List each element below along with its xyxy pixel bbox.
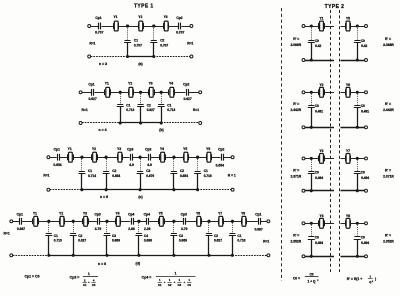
svg-text:C2: C2 xyxy=(214,234,218,238)
svg-text:C0: C0 xyxy=(361,104,365,108)
svg-text:C4: C4 xyxy=(187,283,191,287)
svg-text:C1: C1 xyxy=(134,39,138,43)
svg-text:0.494: 0.494 xyxy=(315,241,323,245)
svg-text:C3: C3 xyxy=(146,169,150,173)
svg-text:0.713: 0.713 xyxy=(126,108,134,112)
svg-text:(c): (c) xyxy=(138,195,142,199)
svg-text:Y3: Y3 xyxy=(319,149,323,153)
svg-text:0.42: 0.42 xyxy=(315,44,321,48)
svg-text:Y6: Y6 xyxy=(206,147,210,151)
svg-text:Y2: Y2 xyxy=(128,82,132,86)
svg-text:n = 8: n = 8 xyxy=(98,262,106,266)
svg-text:C0: C0 xyxy=(315,104,319,108)
svg-text:C1: C1 xyxy=(88,169,92,173)
svg-text:0.481: 0.481 xyxy=(361,110,369,114)
svg-text:Y2: Y2 xyxy=(319,83,323,87)
svg-text:Cp4: Cp4 xyxy=(144,212,150,216)
svg-text:Cp4 =: Cp4 = xyxy=(142,275,152,279)
svg-text:Y1: Y1 xyxy=(113,15,117,19)
svg-text:Cp1: Cp1 xyxy=(88,82,94,86)
svg-text:C2: C2 xyxy=(180,169,184,173)
svg-text:C2: C2 xyxy=(168,283,172,287)
svg-text:2.442R: 2.442R xyxy=(290,108,301,112)
svg-text:+: + xyxy=(88,280,90,284)
svg-text:n = 6: n = 6 xyxy=(100,195,108,199)
svg-text:(b): (b) xyxy=(159,128,163,132)
svg-text:C0: C0 xyxy=(309,272,313,276)
svg-text:Cp3: Cp3 xyxy=(127,148,133,152)
svg-text:n = 3: n = 3 xyxy=(99,62,107,66)
svg-text:0.886: 0.886 xyxy=(144,239,152,243)
svg-text:4.9: 4.9 xyxy=(147,163,152,167)
svg-text:3.79: 3.79 xyxy=(181,227,188,231)
svg-text:C1: C1 xyxy=(204,169,208,173)
svg-text:Y8: Y8 xyxy=(241,212,245,216)
svg-text:C0: C0 xyxy=(315,170,319,174)
svg-text:Y5: Y5 xyxy=(183,147,187,151)
svg-text:C4: C4 xyxy=(144,234,148,238)
svg-text:0.707: 0.707 xyxy=(176,31,184,35)
svg-text:2.371R: 2.371R xyxy=(383,174,394,178)
svg-text:Cp2: Cp2 xyxy=(218,148,224,152)
svg-text:C3: C3 xyxy=(179,234,183,238)
svg-text:0.713: 0.713 xyxy=(54,239,62,243)
svg-text:Y8: Y8 xyxy=(346,214,350,218)
svg-text:0.869: 0.869 xyxy=(112,239,120,243)
svg-text:Cp3 =: Cp3 = xyxy=(70,275,80,279)
svg-text:Cp3: Cp3 xyxy=(145,148,151,152)
svg-text:Y5: Y5 xyxy=(346,17,350,21)
svg-text:Y7: Y7 xyxy=(218,212,222,216)
svg-text:C1: C1 xyxy=(83,283,87,287)
svg-text:Y3: Y3 xyxy=(117,147,121,151)
svg-text:3.79: 3.79 xyxy=(95,227,102,231)
svg-text:Y5: Y5 xyxy=(159,212,163,216)
svg-text:1: 1 xyxy=(175,271,177,275)
svg-text:+: + xyxy=(174,280,176,284)
svg-text:Y2: Y2 xyxy=(59,212,63,216)
svg-text:2.88: 2.88 xyxy=(128,227,135,231)
svg-text:R' =: R' = xyxy=(385,168,391,172)
svg-text:C2: C2 xyxy=(160,39,164,43)
svg-text:3.088R: 3.088R xyxy=(383,43,394,47)
svg-text:Cp1 = C0: Cp1 = C0 xyxy=(24,275,39,279)
svg-text:Y4: Y4 xyxy=(319,214,323,218)
svg-text:Cp1: Cp1 xyxy=(17,212,23,216)
svg-text:1: 1 xyxy=(88,272,90,276)
svg-text:0.707: 0.707 xyxy=(95,31,103,35)
svg-text:C0: C0 xyxy=(361,236,365,240)
svg-text:C1: C1 xyxy=(167,103,171,107)
svg-text:C3: C3 xyxy=(178,283,182,287)
svg-text:0.627: 0.627 xyxy=(183,97,191,101)
svg-text:0.627: 0.627 xyxy=(147,108,155,112)
svg-text:Cp1: Cp1 xyxy=(255,212,261,216)
svg-text:+: + xyxy=(183,280,185,284)
svg-text:0.494: 0.494 xyxy=(361,241,369,245)
svg-text:(d): (d) xyxy=(136,262,140,266)
svg-text:C2: C2 xyxy=(78,234,82,238)
svg-text:R' =: R' = xyxy=(385,234,391,238)
svg-text:(a): (a) xyxy=(138,62,142,66)
svg-text:C0: C0 xyxy=(315,236,319,240)
svg-text:0.654: 0.654 xyxy=(216,164,224,168)
svg-text:R' =: R' = xyxy=(293,37,299,41)
svg-text:0.854: 0.854 xyxy=(180,174,188,178)
svg-text:Y1: Y1 xyxy=(319,17,323,21)
svg-text:0.494: 0.494 xyxy=(361,176,369,180)
svg-text:Cp2: Cp2 xyxy=(176,16,182,20)
svg-text:Y3: Y3 xyxy=(83,212,87,216)
svg-text:4.9: 4.9 xyxy=(129,163,134,167)
svg-text:C1: C1 xyxy=(237,234,241,238)
svg-text:C3: C3 xyxy=(112,234,116,238)
svg-text:R' =: R' = xyxy=(293,234,299,238)
svg-text:R' =: R' = xyxy=(293,102,299,106)
svg-text:Y3: Y3 xyxy=(164,15,168,19)
svg-text:R = 1: R = 1 xyxy=(228,173,236,177)
svg-text:0.869: 0.869 xyxy=(179,239,187,243)
svg-text:2.352R: 2.352R xyxy=(383,240,394,244)
svg-text:0.42: 0.42 xyxy=(361,44,367,48)
svg-text:C2: C2 xyxy=(147,103,151,107)
svg-text:Cp4: Cp4 xyxy=(128,212,134,216)
svg-text:3.088R: 3.088R xyxy=(290,43,301,47)
svg-text:Cp1: Cp1 xyxy=(54,148,60,152)
svg-text:Cp3: Cp3 xyxy=(94,212,100,216)
svg-text:Y4: Y4 xyxy=(169,82,173,86)
svg-text:Y4: Y4 xyxy=(115,212,119,216)
svg-text:2.352R: 2.352R xyxy=(290,240,301,244)
svg-text:0.854: 0.854 xyxy=(112,174,120,178)
svg-text:0.707: 0.707 xyxy=(134,43,142,47)
svg-text:0.627: 0.627 xyxy=(88,97,96,101)
svg-text:0.627: 0.627 xyxy=(78,239,86,243)
svg-text:R=1: R=1 xyxy=(89,42,95,46)
svg-text:0.713: 0.713 xyxy=(167,108,175,112)
svg-text:0.627: 0.627 xyxy=(214,239,222,243)
svg-text:Y2: Y2 xyxy=(138,15,142,19)
svg-text:R=1: R=1 xyxy=(82,108,88,112)
svg-text:Cp3: Cp3 xyxy=(181,212,187,216)
svg-text:R=1: R=1 xyxy=(263,240,269,244)
svg-text:0.654: 0.654 xyxy=(53,163,61,167)
svg-text:2.442R: 2.442R xyxy=(383,108,394,112)
svg-text:Y3: Y3 xyxy=(149,82,153,86)
svg-text:2.371R: 2.371R xyxy=(290,174,301,178)
svg-text:0.716: 0.716 xyxy=(204,174,212,178)
svg-text:C3: C3 xyxy=(92,283,96,287)
svg-text:Y1: Y1 xyxy=(33,212,37,216)
svg-text:Y4: Y4 xyxy=(160,147,164,151)
svg-text:C0: C0 xyxy=(361,39,365,43)
svg-text:R' =: R' = xyxy=(293,168,299,172)
svg-text:R' = R(1 +: R' = R(1 + xyxy=(347,277,363,281)
svg-text:C0: C0 xyxy=(361,170,365,174)
svg-text:R=1: R=1 xyxy=(4,231,10,235)
svg-text:1 + Q: 1 + Q xyxy=(308,280,316,284)
svg-text:Y2: Y2 xyxy=(92,147,96,151)
svg-text:C1: C1 xyxy=(126,103,130,107)
svg-text:0.887: 0.887 xyxy=(17,227,25,231)
svg-text:Cp2: Cp2 xyxy=(183,82,189,86)
svg-text:n = 4: n = 4 xyxy=(98,128,106,132)
svg-text:Y7: Y7 xyxy=(346,149,350,153)
svg-text:0.716: 0.716 xyxy=(237,239,245,243)
svg-text:C1: C1 xyxy=(54,234,58,238)
svg-text:R' =: R' = xyxy=(385,37,391,41)
svg-text:0.707: 0.707 xyxy=(160,43,168,47)
svg-text:Y1: Y1 xyxy=(68,147,72,151)
svg-text:Y6: Y6 xyxy=(196,212,200,216)
svg-text:C0: C0 xyxy=(315,39,319,43)
svg-text:C2: C2 xyxy=(112,169,116,173)
svg-text:TYPE 2: TYPE 2 xyxy=(325,4,345,10)
svg-text:C1: C1 xyxy=(158,283,162,287)
svg-text:R=1: R=1 xyxy=(193,108,199,112)
svg-text:2.26: 2.26 xyxy=(144,227,151,231)
svg-text:R=1: R=1 xyxy=(43,173,49,177)
svg-text:TYPE 1: TYPE 1 xyxy=(134,4,154,10)
svg-text:0.714: 0.714 xyxy=(88,174,96,178)
svg-text:R' =: R' = xyxy=(385,102,391,106)
svg-text:C0 =: C0 = xyxy=(293,277,300,281)
svg-text:Y6: Y6 xyxy=(346,83,350,87)
svg-text:Y1: Y1 xyxy=(105,82,109,86)
svg-text:): ) xyxy=(375,277,376,281)
svg-text:R=1: R=1 xyxy=(187,42,193,46)
svg-text:+: + xyxy=(164,280,166,284)
svg-text:0.887: 0.887 xyxy=(254,228,262,232)
svg-text:0.494: 0.494 xyxy=(315,176,323,180)
svg-text:Cp1: Cp1 xyxy=(95,16,101,20)
svg-text:0.879: 0.879 xyxy=(146,174,154,178)
svg-text:0.481: 0.481 xyxy=(315,110,323,114)
